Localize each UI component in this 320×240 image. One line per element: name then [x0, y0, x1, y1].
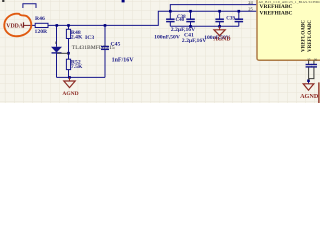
svg-text:VREFLOABC: VREFLOABC	[307, 20, 313, 52]
svg-text:C45: C45	[111, 42, 121, 48]
svg-text:VREFLOABC: VREFLOABC	[301, 20, 307, 52]
svg-text:AGND: AGND	[213, 36, 230, 42]
svg-text:VREFHIABC: VREFHIABC	[260, 11, 293, 17]
svg-text:120R: 120R	[35, 29, 49, 35]
svg-text:IC3: IC3	[85, 35, 94, 41]
svg-text:AGND: AGND	[300, 93, 319, 100]
svg-text:7.5K: 7.5K	[71, 64, 83, 70]
svg-text:AGND: AGND	[62, 91, 78, 97]
svg-text:C40: C40	[176, 18, 185, 23]
svg-text:VREFHIABC: VREFHIABC	[260, 4, 293, 10]
svg-text:100nF,50V: 100nF,50V	[154, 34, 181, 40]
svg-text:C39: C39	[226, 17, 235, 22]
svg-text:2.2µF,16V: 2.2µF,16V	[182, 38, 207, 44]
svg-text:R46: R46	[35, 16, 45, 22]
svg-text:VDDA: VDDA	[6, 23, 24, 29]
svg-text:1nF/16V: 1nF/16V	[112, 57, 135, 63]
svg-text:2.4K: 2.4K	[71, 34, 83, 40]
